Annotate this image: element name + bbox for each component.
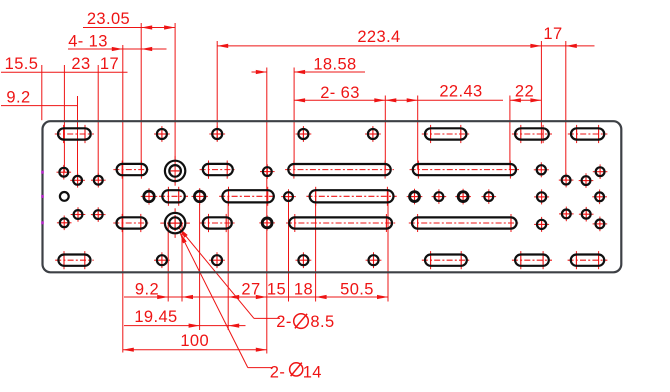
svg-text:15: 15 xyxy=(267,280,286,298)
svg-text:4- 13: 4- 13 xyxy=(68,32,108,50)
svg-text:17: 17 xyxy=(543,25,562,43)
svg-text:2- 63: 2- 63 xyxy=(320,84,360,102)
svg-text:18.58: 18.58 xyxy=(313,56,356,74)
svg-text:18: 18 xyxy=(294,280,313,298)
svg-text:15.5: 15.5 xyxy=(5,55,39,73)
svg-text:2-: 2- xyxy=(270,363,285,381)
svg-text:100: 100 xyxy=(180,332,209,350)
svg-text:19.45: 19.45 xyxy=(134,308,177,326)
svg-text:14: 14 xyxy=(303,363,322,381)
svg-text:27: 27 xyxy=(241,280,260,298)
svg-text:9.2: 9.2 xyxy=(135,280,159,298)
svg-text:22.43: 22.43 xyxy=(439,82,482,100)
svg-text:50.5: 50.5 xyxy=(340,280,374,298)
svg-text:17: 17 xyxy=(100,55,119,73)
svg-text:22: 22 xyxy=(515,82,534,100)
svg-text:23: 23 xyxy=(71,55,90,73)
svg-text:2-: 2- xyxy=(276,313,291,331)
svg-text:8.5: 8.5 xyxy=(310,313,334,331)
svg-text:9.2: 9.2 xyxy=(6,88,30,106)
svg-text:223.4: 223.4 xyxy=(357,28,400,46)
svg-text:23.05: 23.05 xyxy=(87,10,130,28)
